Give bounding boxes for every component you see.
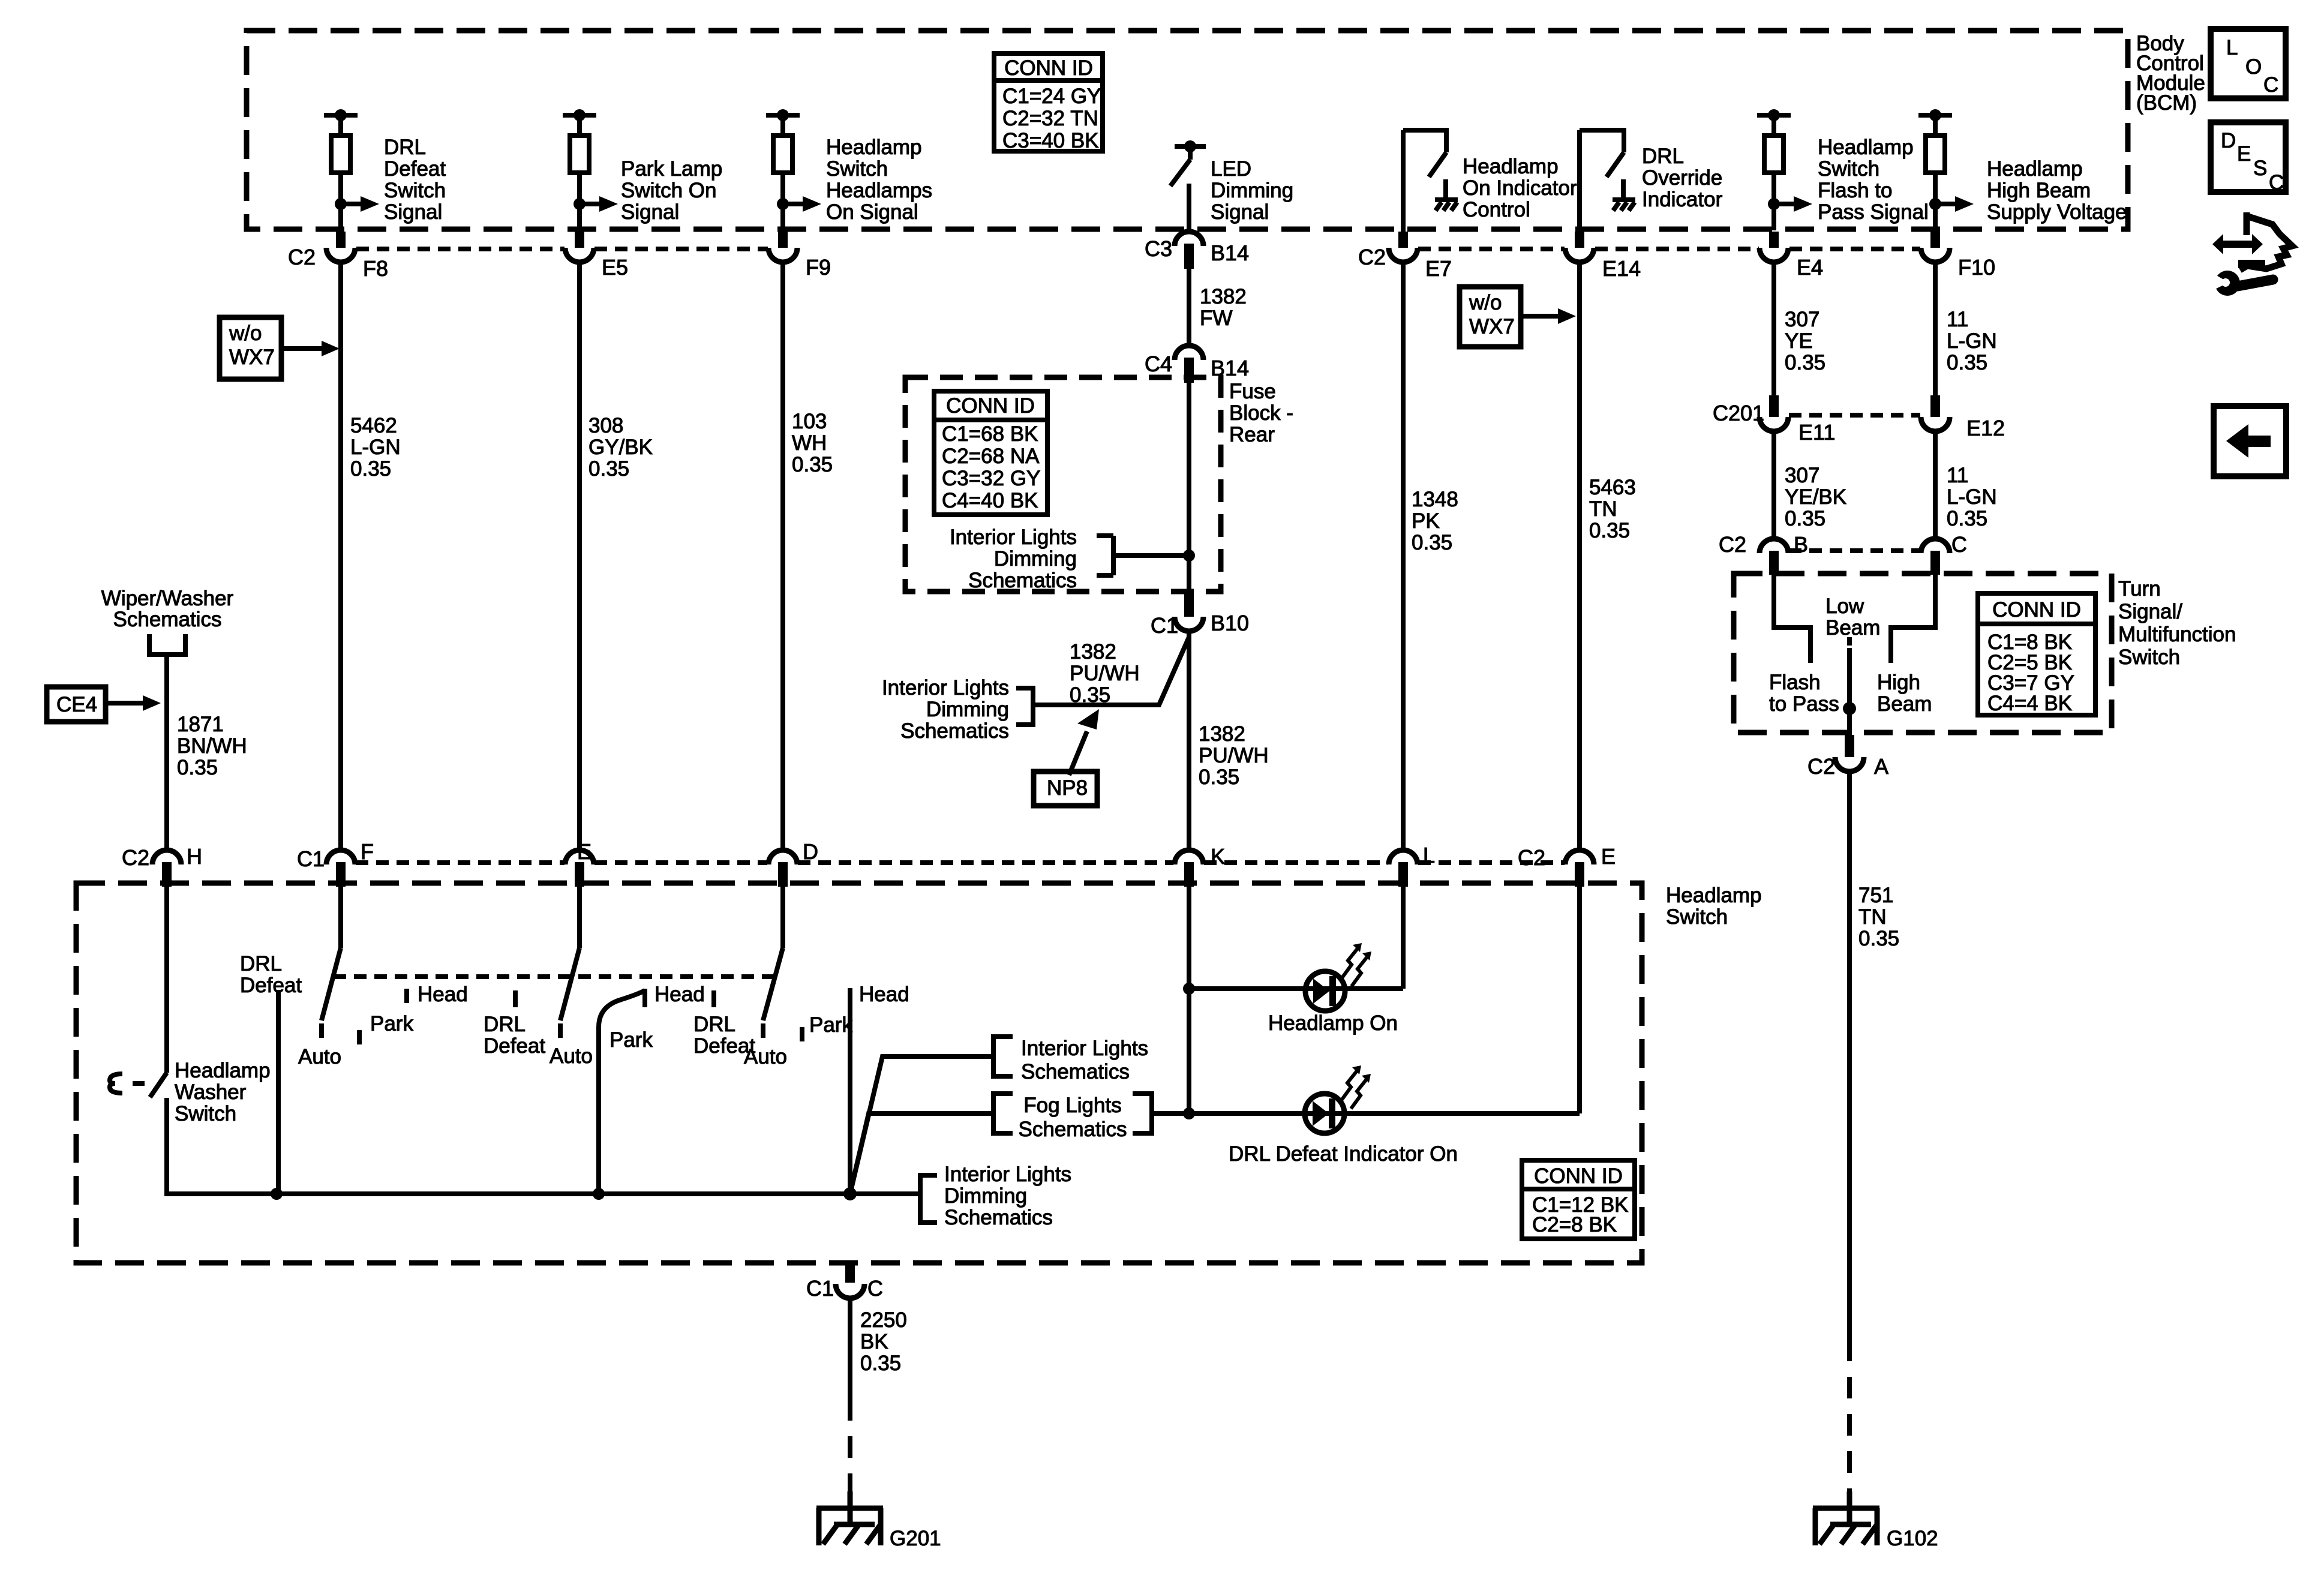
svg-text:L-GN: L-GN — [1947, 329, 1997, 353]
svg-text:G102: G102 — [1887, 1527, 1938, 1550]
svg-text:Headlamp: Headlamp — [1987, 157, 2083, 181]
svg-text:1348: 1348 — [1412, 488, 1458, 511]
svg-text:C2=68 NA: C2=68 NA — [942, 445, 1040, 468]
svg-text:Switch: Switch — [2118, 646, 2180, 669]
svg-text:Beam: Beam — [1825, 616, 1880, 640]
svg-text:S: S — [2253, 157, 2267, 180]
svg-text:Schematics: Schematics — [968, 569, 1077, 592]
svg-text:Signal: Signal — [1211, 200, 1269, 224]
svg-text:Schematics: Schematics — [944, 1206, 1053, 1229]
svg-text:Park: Park — [370, 1012, 413, 1035]
svg-text:1382: 1382 — [1200, 285, 1247, 308]
svg-text:C2=8 BK: C2=8 BK — [1532, 1213, 1617, 1236]
svg-text:Headlamp: Headlamp — [1666, 884, 1762, 907]
svg-text:CE4: CE4 — [56, 693, 97, 716]
svg-text:NP8: NP8 — [1047, 776, 1088, 800]
svg-text:Auto: Auto — [298, 1045, 341, 1068]
svg-text:0.35: 0.35 — [1785, 507, 1825, 530]
svg-text:A: A — [1874, 754, 1888, 779]
svg-text:K: K — [1211, 844, 1225, 869]
svg-text:Switch: Switch — [1666, 905, 1728, 929]
svg-text:E5: E5 — [602, 255, 628, 280]
svg-text:0.35: 0.35 — [177, 756, 218, 779]
svg-text:WX7: WX7 — [229, 346, 275, 369]
svg-text:Head: Head — [859, 983, 909, 1006]
svg-text:High Beam: High Beam — [1987, 179, 2091, 202]
svg-text:C1: C1 — [297, 846, 325, 871]
svg-text:Wiper/Washer: Wiper/Washer — [101, 587, 234, 610]
svg-text:C2: C2 — [1719, 532, 1746, 557]
svg-text:Switch: Switch — [384, 179, 446, 202]
svg-text:0.35: 0.35 — [1412, 531, 1452, 554]
svg-text:CONN ID: CONN ID — [1992, 598, 2081, 622]
svg-text:Schematics: Schematics — [113, 608, 222, 631]
svg-text:BK: BK — [860, 1330, 888, 1353]
svg-text:Headlamp: Headlamp — [826, 136, 922, 159]
svg-text:YE: YE — [1785, 329, 1813, 353]
svg-text:307: 307 — [1785, 308, 1819, 331]
svg-text:Dimming: Dimming — [944, 1184, 1027, 1208]
svg-text:Headlamp: Headlamp — [1818, 136, 1914, 159]
svg-text:Signal/: Signal/ — [2118, 600, 2182, 623]
svg-text:E12: E12 — [1966, 416, 2005, 440]
svg-text:F8: F8 — [363, 256, 388, 281]
svg-text:5462: 5462 — [350, 414, 397, 437]
svg-text:Flash: Flash — [1769, 671, 1821, 694]
svg-text:C2: C2 — [122, 845, 149, 870]
svg-text:C201: C201 — [1713, 401, 1764, 425]
svg-text:Interior Lights: Interior Lights — [944, 1163, 1071, 1186]
svg-text:F9: F9 — [806, 255, 831, 280]
svg-text:B: B — [1794, 532, 1808, 557]
svg-text:C4=40 BK: C4=40 BK — [942, 489, 1038, 512]
svg-text:Defeat: Defeat — [693, 1034, 755, 1058]
svg-text:Schematics: Schematics — [900, 719, 1009, 743]
svg-text:Signal: Signal — [384, 200, 442, 224]
svg-text:L: L — [2226, 36, 2238, 59]
svg-text:307: 307 — [1785, 464, 1819, 487]
svg-text:B14: B14 — [1211, 241, 1249, 265]
svg-text:Park: Park — [809, 1013, 852, 1037]
svg-text:E: E — [1601, 844, 1616, 869]
svg-text:Defeat: Defeat — [240, 974, 302, 997]
svg-text:Dimming: Dimming — [1211, 179, 1293, 202]
svg-text:11: 11 — [1947, 464, 1968, 487]
svg-text:Defeat: Defeat — [484, 1034, 545, 1058]
svg-text:0.35: 0.35 — [1947, 351, 1987, 374]
svg-text:Auto: Auto — [550, 1044, 593, 1068]
svg-text:C2: C2 — [1358, 245, 1386, 269]
svg-text:High: High — [1877, 671, 1920, 694]
svg-text:C3: C3 — [1145, 236, 1172, 261]
svg-text:to Pass: to Pass — [1769, 692, 1839, 716]
svg-text:0.35: 0.35 — [1589, 519, 1630, 542]
svg-text:0.35: 0.35 — [1785, 351, 1825, 374]
svg-text:YE/BK: YE/BK — [1785, 485, 1846, 509]
svg-text:Dimming: Dimming — [994, 547, 1077, 571]
svg-text:2250: 2250 — [860, 1308, 907, 1332]
svg-text:Control: Control — [1463, 198, 1530, 221]
svg-text:C: C — [2269, 171, 2284, 194]
svg-text:H: H — [187, 844, 202, 869]
svg-text:0.35: 0.35 — [588, 457, 629, 481]
svg-text:Supply Voltage: Supply Voltage — [1987, 200, 2127, 224]
svg-text:0.35: 0.35 — [1070, 683, 1110, 707]
svg-text:11: 11 — [1947, 308, 1968, 331]
svg-text:DRL: DRL — [384, 136, 426, 159]
svg-text:Dimming: Dimming — [926, 698, 1009, 721]
svg-text:Washer: Washer — [175, 1080, 247, 1104]
svg-text:Headlamps: Headlamps — [826, 179, 932, 202]
svg-text:Pass Signal: Pass Signal — [1818, 200, 1929, 224]
svg-text:Multifunction: Multifunction — [2118, 623, 2236, 646]
svg-text:C: C — [2263, 73, 2278, 97]
svg-text:WH: WH — [792, 431, 827, 455]
svg-text:CONN ID: CONN ID — [1534, 1164, 1623, 1188]
svg-text:Headlamp: Headlamp — [1463, 155, 1559, 178]
svg-text:BN/WH: BN/WH — [177, 734, 247, 758]
svg-text:Low: Low — [1825, 595, 1864, 618]
svg-text:F: F — [361, 839, 374, 864]
svg-text:Signal: Signal — [621, 200, 679, 224]
svg-text:Schematics: Schematics — [1019, 1118, 1127, 1141]
svg-text:w/o: w/o — [1469, 291, 1502, 314]
svg-text:Rear: Rear — [1229, 423, 1275, 446]
svg-text:WX7: WX7 — [1469, 315, 1515, 338]
svg-text:Schematics: Schematics — [1021, 1060, 1130, 1083]
svg-text:Fuse: Fuse — [1229, 380, 1276, 403]
svg-text:C2: C2 — [1518, 845, 1545, 870]
svg-text:0.35: 0.35 — [792, 453, 833, 476]
svg-text:Indicator: Indicator — [1642, 188, 1723, 211]
svg-text:Switch: Switch — [175, 1102, 236, 1125]
svg-text:(BCM): (BCM) — [2136, 91, 2197, 115]
svg-text:Head: Head — [654, 983, 705, 1006]
svg-text:C3=40 BK: C3=40 BK — [1002, 129, 1099, 152]
svg-text:FW: FW — [1200, 307, 1232, 330]
svg-text:On Signal: On Signal — [826, 200, 918, 224]
svg-text:0.35: 0.35 — [860, 1352, 901, 1375]
svg-text:B10: B10 — [1211, 611, 1249, 635]
svg-text:0.35: 0.35 — [350, 457, 391, 481]
svg-text:E14: E14 — [1602, 256, 1641, 281]
svg-text:CONN ID: CONN ID — [1004, 56, 1093, 80]
svg-text:C: C — [1951, 532, 1967, 557]
svg-text:TN: TN — [1589, 497, 1617, 521]
svg-text:308: 308 — [588, 414, 623, 437]
svg-text:C2=32 TN: C2=32 TN — [1002, 107, 1098, 130]
svg-text:TN: TN — [1858, 905, 1887, 929]
svg-text:Park: Park — [609, 1028, 653, 1052]
svg-text:DRL: DRL — [1642, 145, 1684, 168]
svg-text:Beam: Beam — [1877, 692, 1932, 716]
svg-text:O: O — [2245, 55, 2262, 79]
svg-text:CONN ID: CONN ID — [946, 394, 1035, 418]
svg-text:PU/WH: PU/WH — [1199, 744, 1269, 767]
svg-text:C2: C2 — [288, 245, 316, 269]
svg-text:Defeat: Defeat — [384, 157, 446, 181]
svg-text:D: D — [2221, 129, 2236, 152]
svg-text:E4: E4 — [1797, 255, 1823, 280]
svg-text:C4: C4 — [1145, 352, 1172, 376]
svg-text:103: 103 — [792, 410, 827, 433]
svg-text:Override: Override — [1642, 166, 1722, 190]
svg-text:1871: 1871 — [177, 713, 224, 736]
svg-text:1382: 1382 — [1070, 640, 1116, 664]
svg-text:G201: G201 — [890, 1527, 941, 1550]
svg-text:E: E — [577, 839, 591, 864]
svg-text:GY/BK: GY/BK — [588, 436, 653, 459]
svg-text:F10: F10 — [1958, 255, 1995, 280]
svg-text:751: 751 — [1858, 884, 1893, 907]
svg-text:E11: E11 — [1798, 420, 1835, 445]
svg-text:w/o: w/o — [229, 322, 262, 345]
svg-text:Switch: Switch — [826, 157, 888, 181]
svg-text:L-GN: L-GN — [350, 436, 401, 459]
svg-text:1382: 1382 — [1199, 722, 1245, 746]
svg-text:PK: PK — [1412, 509, 1440, 533]
svg-text:DRL: DRL — [240, 952, 282, 975]
svg-text:E7: E7 — [1425, 256, 1452, 281]
svg-text:Switch: Switch — [1818, 157, 1879, 181]
svg-text:C1=68 BK: C1=68 BK — [942, 422, 1038, 446]
svg-text:PU/WH: PU/WH — [1070, 662, 1140, 685]
svg-text:D: D — [803, 839, 818, 864]
svg-text:0.35: 0.35 — [1858, 927, 1899, 950]
svg-text:DRL: DRL — [693, 1013, 735, 1036]
svg-text:Head: Head — [418, 983, 468, 1006]
svg-text:0.35: 0.35 — [1947, 507, 1987, 530]
svg-text:Switch On: Switch On — [621, 179, 717, 202]
svg-text:C2: C2 — [1807, 754, 1835, 779]
svg-text:C3=32 GY: C3=32 GY — [942, 467, 1040, 490]
svg-text:C1: C1 — [1151, 613, 1178, 638]
svg-text:E: E — [2237, 142, 2251, 166]
svg-text:DRL Defeat Indicator On: DRL Defeat Indicator On — [1229, 1142, 1458, 1166]
svg-text:Block -: Block - — [1229, 401, 1293, 425]
svg-text:Park Lamp: Park Lamp — [621, 157, 722, 181]
svg-text:C1: C1 — [806, 1276, 834, 1301]
svg-text:Flash to: Flash to — [1818, 179, 1893, 202]
svg-text:B14: B14 — [1211, 356, 1249, 380]
svg-text:5463: 5463 — [1589, 476, 1636, 499]
svg-text:LED: LED — [1211, 157, 1251, 181]
svg-text:C4=4 BK: C4=4 BK — [1987, 692, 2072, 715]
svg-text:Interior Lights: Interior Lights — [882, 676, 1009, 700]
svg-text:On Indicator: On Indicator — [1463, 176, 1577, 200]
svg-text:Fog Lights: Fog Lights — [1023, 1094, 1121, 1117]
svg-text:L-GN: L-GN — [1947, 485, 1997, 509]
svg-text:Interior Lights: Interior Lights — [950, 526, 1077, 549]
svg-text:Headlamp On: Headlamp On — [1268, 1011, 1398, 1035]
svg-text:Headlamp: Headlamp — [175, 1059, 271, 1082]
svg-text:Interior Lights: Interior Lights — [1021, 1037, 1148, 1060]
svg-text:DRL: DRL — [484, 1013, 526, 1036]
svg-text:C: C — [867, 1276, 883, 1301]
svg-text:0.35: 0.35 — [1199, 766, 1239, 789]
svg-text:C1=24 GY: C1=24 GY — [1002, 85, 1101, 108]
svg-text:Turn: Turn — [2118, 577, 2161, 601]
svg-text:L: L — [1423, 843, 1435, 867]
